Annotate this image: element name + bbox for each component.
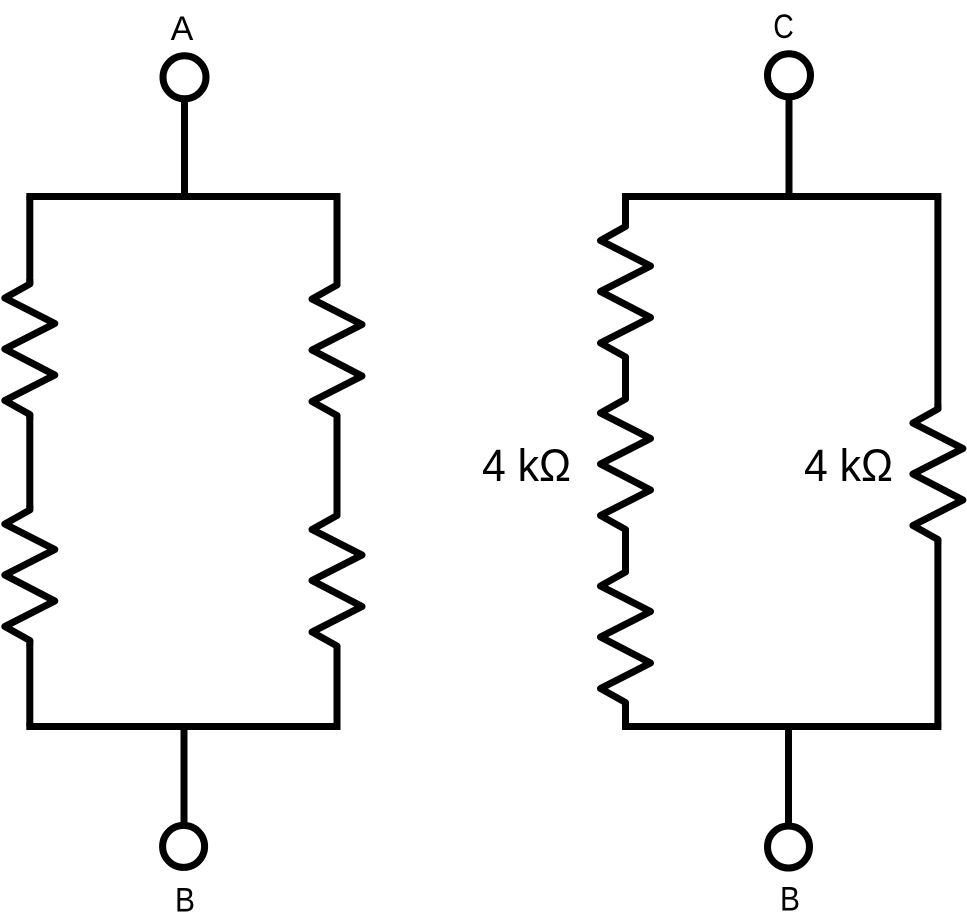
svg-text:4 kΩ: 4 kΩ	[482, 440, 571, 491]
resistor R6 series chain middle	[601, 394, 651, 535]
terminal B left circuit	[163, 825, 205, 867]
resistor R5 series chain top	[601, 222, 651, 363]
svg-text:B: B	[175, 882, 195, 920]
svg-text:4 kΩ: 4 kΩ	[804, 440, 893, 491]
wire right branch upper	[334, 197, 341, 287]
wire left branch lower	[26, 640, 33, 727]
svg-text:C: C	[773, 8, 794, 46]
wire left branch upper	[26, 197, 33, 286]
wire bottom bus right circuit	[622, 723, 941, 730]
wire top bus right circuit	[622, 193, 941, 200]
wire right branch lower	[334, 645, 341, 727]
wire right branch upper right circuit	[934, 197, 941, 411]
resistor R4 right branch	[312, 511, 362, 652]
wire B stub left circuit	[181, 725, 188, 826]
terminal A	[163, 56, 206, 99]
wire A stub	[181, 98, 188, 198]
svg-text:A: A	[171, 10, 194, 48]
wire bottom bus left circuit	[26, 723, 340, 730]
resistor R3 right branch	[312, 280, 362, 421]
resistor R7 series chain bottom	[601, 567, 651, 708]
wire right branch lower right circuit	[934, 539, 941, 727]
wire series node 2	[622, 529, 629, 574]
wire right branch middle	[334, 415, 341, 517]
wire left branch upper right circuit	[622, 197, 629, 228]
wire left branch lower right circuit	[622, 702, 629, 727]
resistor R2 left branch	[5, 505, 55, 646]
wire series node 1	[622, 356, 629, 400]
terminal C	[768, 54, 811, 97]
wire C stub	[786, 96, 793, 198]
wire top bus left circuit	[26, 193, 340, 200]
svg-text:B: B	[780, 881, 800, 919]
resistor R1 left branch	[5, 279, 55, 420]
resistor R8	[913, 404, 963, 545]
wire left branch middle	[26, 414, 33, 512]
wire B stub right circuit	[785, 725, 792, 827]
terminal B right circuit	[768, 826, 810, 868]
